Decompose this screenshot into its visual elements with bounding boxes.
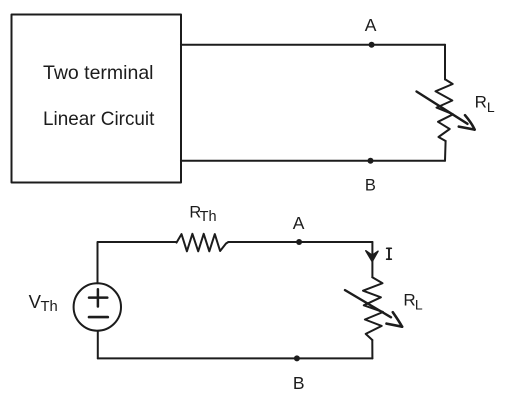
variable resistor arrow shaft (bottom R_L) [345, 290, 391, 317]
svg-text:Linear Circuit: Linear Circuit [43, 108, 155, 130]
variable resistor arrow shaft (top R_L) [417, 92, 468, 124]
variable resistor arrowhead (bottom R_L) [393, 312, 402, 327]
svg-text:A: A [365, 15, 377, 35]
current arrow I (filled head) [366, 251, 378, 262]
node B (top) [368, 158, 374, 164]
label I (serif capital I drawn with strokes) [387, 248, 392, 259]
wire right vertical upper [444, 45, 446, 80]
wire bottom: box to corner [181, 160, 445, 162]
svg-text:Th: Th [41, 299, 58, 315]
node A (top) [369, 42, 375, 48]
node A (bottom) [296, 239, 302, 245]
wire: source top to corner and to R_Th [98, 242, 177, 283]
minus sign [89, 316, 108, 319]
svg-text:B: B [293, 373, 305, 393]
resistor R_L (bottom, variable) zigzag [363, 277, 383, 340]
box: two-terminal linear circuit [12, 15, 182, 183]
wire top: box to corner [181, 44, 445, 46]
svg-text:Th: Th [200, 209, 217, 225]
svg-text:A: A [293, 213, 305, 233]
svg-text:Two terminal: Two terminal [43, 62, 154, 84]
plus sign [89, 289, 107, 306]
wire right vertical (with current) [371, 242, 373, 277]
wire right vertical lower [444, 141, 447, 161]
svg-text:L: L [415, 297, 423, 313]
svg-text:R: R [403, 291, 415, 310]
variable resistor arrowhead (top R_L) [465, 115, 475, 129]
resistor R_Th zigzag [177, 234, 229, 252]
resistor R_L (top, variable) zigzag [436, 80, 454, 141]
wire: R_Th to right corner [228, 241, 372, 243]
svg-text:R: R [475, 93, 487, 112]
wire: source bottom to corner [97, 331, 99, 359]
svg-text:L: L [487, 99, 495, 115]
wire bottom [98, 357, 373, 359]
node B (bottom) [294, 355, 300, 361]
voltage source V_Th circle [74, 283, 121, 330]
svg-text:B: B [365, 177, 376, 195]
wire: zigzag to bottom corner [371, 340, 373, 358]
